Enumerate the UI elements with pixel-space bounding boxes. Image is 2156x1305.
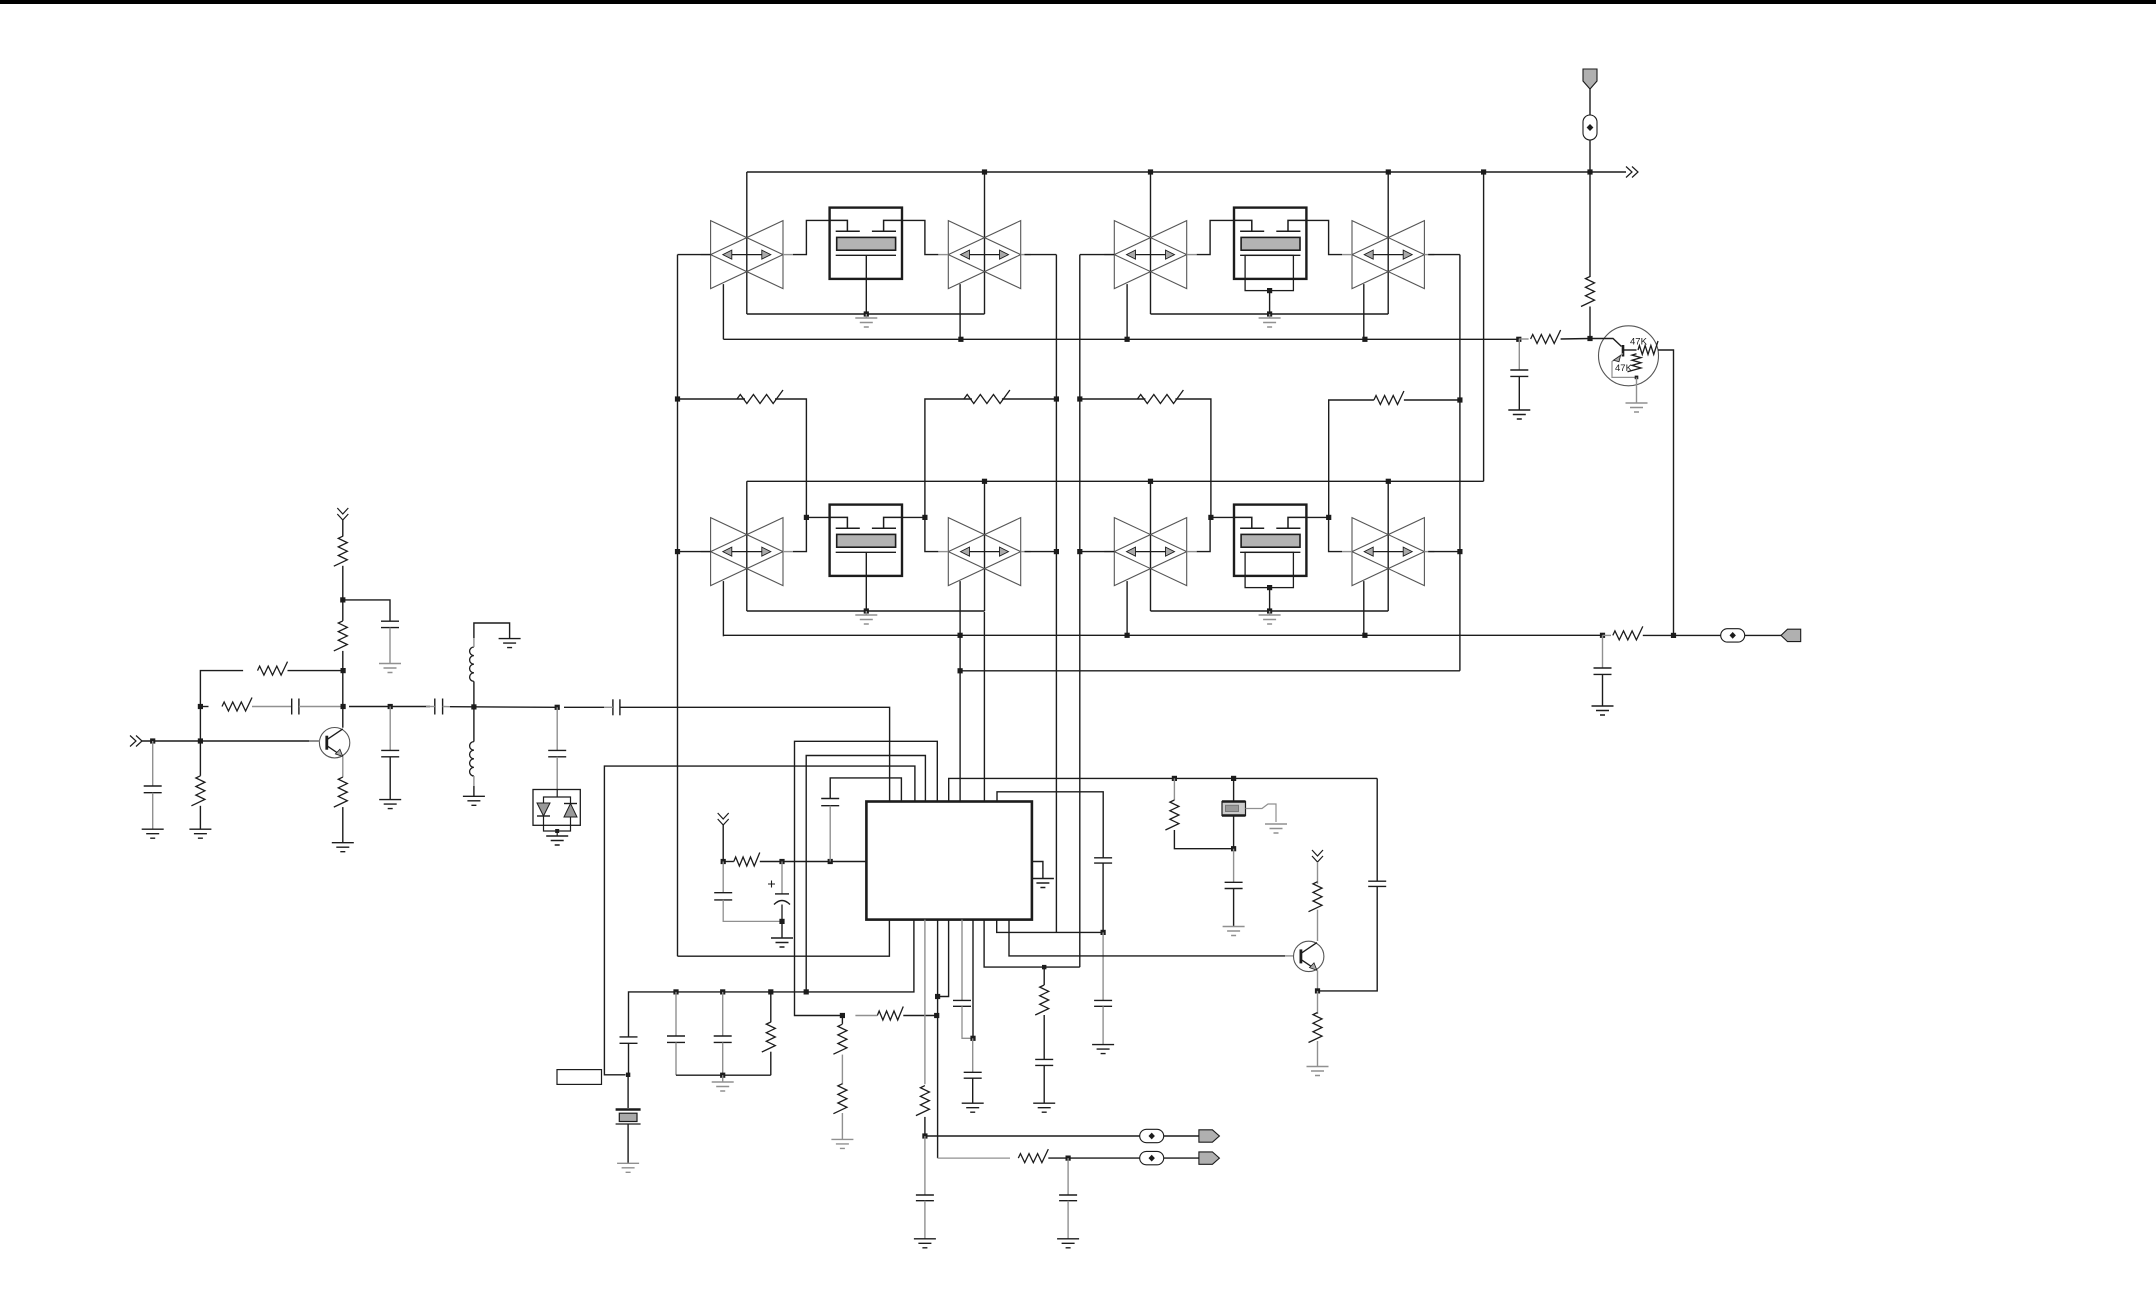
resistor R17 xyxy=(841,1055,843,1085)
border bar top xyxy=(0,0,2156,4)
wire row link vertical xyxy=(1483,172,1485,481)
dual-gate MOSFET cell A1 gate1 electrode xyxy=(830,220,848,231)
wire C22 top xyxy=(1376,778,1378,881)
label box xyxy=(557,1070,602,1085)
wire cell B2 ground loop xyxy=(1151,610,1389,612)
wire pin937 down xyxy=(937,920,939,1159)
junction bus2-B2R xyxy=(1386,479,1391,484)
supply flag V2 xyxy=(337,508,348,520)
capacitor C3 xyxy=(381,620,399,622)
connector flag OUT xyxy=(1781,629,1801,641)
wire R14-node xyxy=(760,861,782,863)
wire cell B2 gate2 link xyxy=(1306,517,1342,551)
diode D1a xyxy=(537,803,550,816)
dual-gate MOSFET cell B1 substrate line xyxy=(1240,254,1300,256)
wire cell A1 left bus vertical xyxy=(746,172,748,314)
wire cell A2 right bus vertical xyxy=(984,481,986,611)
capacitor C4 xyxy=(381,749,399,751)
dual-gate MOSFET cell B2 gate2 electrode xyxy=(1288,517,1306,528)
junction sig-diodes xyxy=(555,705,560,710)
resistor R13 xyxy=(334,777,348,807)
wire maze res chain xyxy=(877,1007,903,1021)
resistor R14 xyxy=(734,853,760,867)
ground cell B1 xyxy=(1269,314,1271,318)
wire cell A1 source tap xyxy=(865,255,867,314)
wire long vertical B-left xyxy=(1079,255,1081,968)
wire Q2 collector out xyxy=(1658,350,1674,635)
ground C21 xyxy=(1223,927,1245,936)
wire R19 bottom xyxy=(1174,830,1233,849)
wire Q3 feedback xyxy=(1318,886,1378,991)
junction B2-left xyxy=(1077,549,1082,554)
wire C18 gnd xyxy=(1043,1065,1045,1103)
ground C18 xyxy=(1033,1103,1055,1112)
junction R1-gate xyxy=(804,515,809,520)
resistor R15 xyxy=(770,992,772,1022)
wire row1 lower loop xyxy=(723,338,1518,340)
junction loop1-end xyxy=(1516,337,1521,342)
varactor pair cell A2 left xyxy=(711,518,783,586)
ground C23 xyxy=(914,1239,936,1248)
wire C19 down xyxy=(1102,863,1104,932)
wire cell A2 gate1 link xyxy=(793,517,830,551)
wire R6 to Q2 base xyxy=(1561,338,1590,341)
wire signal to IC xyxy=(620,707,890,801)
capacitor C24 xyxy=(1059,1194,1077,1196)
wire C1 lead xyxy=(152,741,154,786)
test pad OUT xyxy=(1721,629,1745,642)
wire R23 to out2 xyxy=(1048,1157,1068,1159)
wire C2 right xyxy=(299,706,343,708)
capacitor C8 xyxy=(714,892,732,894)
resistor R8 xyxy=(191,776,205,806)
dual-gate MOSFET cell B2 source box xyxy=(1245,552,1293,587)
wire C24 gnd xyxy=(1067,1201,1069,1239)
wire C15 ground lead xyxy=(1602,674,1604,706)
resistor R10 xyxy=(222,698,252,712)
wire R12 top xyxy=(342,600,344,621)
junction elcap node xyxy=(779,859,784,864)
wire R12 bottom xyxy=(342,651,344,671)
inductor L2 lower xyxy=(470,742,474,776)
wire R2 right xyxy=(1002,398,1057,400)
wire cell A2 gate2 link xyxy=(902,517,938,551)
ground cell B2 xyxy=(1269,611,1271,615)
resistor R22 xyxy=(916,1086,930,1116)
junction loop2-B2b xyxy=(1362,633,1367,638)
ground Q3 xyxy=(1307,1067,1329,1076)
wire L1 top xyxy=(473,638,475,647)
wire cell A2 source tap xyxy=(865,552,867,611)
junction C9 gnd xyxy=(779,919,784,924)
wire C21 link xyxy=(1233,849,1235,883)
wire cell A2 left bus vertical xyxy=(746,481,748,611)
ground X1 xyxy=(617,1163,639,1172)
ground Q2 emitter xyxy=(1626,403,1648,412)
wire R3 left xyxy=(1080,398,1146,400)
wire cell B1 gate2 link xyxy=(1306,220,1342,254)
wire R4 left to gate xyxy=(1329,400,1374,517)
resistor R3 xyxy=(1137,390,1183,404)
dual-gate MOSFET cell A1 channel xyxy=(837,237,896,250)
wire C23 lead xyxy=(924,1136,926,1195)
wire C10 bottom xyxy=(829,806,831,862)
dual-gate MOSFET cell B1 gate2 electrode xyxy=(1288,220,1306,231)
wire cell A1 lower-left vertical xyxy=(722,284,724,339)
wire C6 lead xyxy=(556,707,558,750)
ground cell A2 xyxy=(865,611,867,615)
wire R7 to junction xyxy=(1643,634,1674,636)
junction 1044 xyxy=(1042,965,1046,969)
test pad V1 xyxy=(1583,115,1597,140)
wire out2 to flag xyxy=(1164,1157,1199,1159)
junction A2-left xyxy=(675,549,680,554)
supply flag V3 xyxy=(718,813,729,825)
ground bank xyxy=(722,1075,724,1082)
wire C10 top loop xyxy=(830,778,901,802)
diode D1b xyxy=(564,803,577,805)
capacitor C2 xyxy=(291,699,293,715)
wire R19 branch xyxy=(1173,778,1175,800)
wire cell A1 gate1 link xyxy=(793,220,830,254)
resistor R18 xyxy=(1043,967,1045,985)
wire node to IC left pin xyxy=(782,861,866,863)
wire cell B2 right bus vertical xyxy=(1387,481,1389,611)
wire V1 to pad xyxy=(1589,89,1591,115)
resistor R23 xyxy=(1018,1149,1048,1163)
wire collector link xyxy=(342,671,344,728)
wire pad to bus xyxy=(1589,140,1591,172)
varactor pair cell B1 right xyxy=(1352,221,1424,289)
wire pin962 down xyxy=(961,920,963,1001)
wire row2 lower loop xyxy=(723,634,1602,636)
dual-gate MOSFET cell A1 gate2 electrode xyxy=(884,220,902,231)
junction bus-B1R xyxy=(1386,169,1391,174)
wire C4 lead xyxy=(389,707,391,751)
capacitor C5 coupling xyxy=(434,699,436,715)
resistor Q2 47K horizontal xyxy=(1638,341,1658,355)
wire B2 left lead xyxy=(1080,551,1115,553)
ground D1 xyxy=(546,836,568,845)
junction res-1233 xyxy=(1231,776,1236,781)
wire A2 right lead xyxy=(1025,551,1057,553)
wire R10 row xyxy=(200,706,208,708)
wire R9 right xyxy=(288,670,344,672)
dual-gate MOSFET cell B2 box xyxy=(1234,505,1306,576)
input connector xyxy=(130,736,142,747)
wire to output pad xyxy=(1674,634,1721,636)
transistor Q3 xyxy=(1294,941,1324,971)
wire C16 link xyxy=(962,1006,973,1038)
wire pin913 to cap bank xyxy=(629,920,914,1037)
capacitor C20 xyxy=(1094,999,1112,1001)
ground R8 xyxy=(189,829,211,838)
junction sig-C4 xyxy=(388,704,393,709)
wire C8 bottom xyxy=(723,900,782,922)
wire crystal stub xyxy=(627,1075,629,1108)
wire A2 loop to IC pin xyxy=(983,612,985,802)
wire maze loop741 xyxy=(795,741,938,1015)
electrolytic C9 xyxy=(781,862,783,894)
dual-gate MOSFET cell A2 substrate line xyxy=(836,551,896,553)
junction loop2-A2a xyxy=(958,633,963,638)
wire C14 to ground xyxy=(1518,376,1520,410)
capacitor C18 xyxy=(1035,1058,1053,1060)
ground Y1 xyxy=(1265,824,1287,833)
wire C7 left xyxy=(564,706,604,708)
wire cell A2 ground loop xyxy=(747,610,985,612)
wire pin973 down xyxy=(972,920,974,1039)
junction pin973 xyxy=(970,1036,975,1041)
wire pin948 link xyxy=(938,920,949,997)
varactor pair cell A2 right xyxy=(948,518,1020,586)
resistor R1 xyxy=(737,390,783,404)
wire Q1 emitter down xyxy=(342,757,344,778)
transistor Q2 emitter xyxy=(1612,354,1637,378)
wire cell B1 lower-left vertical xyxy=(1126,284,1128,339)
wire cell B2 gate1 link xyxy=(1197,517,1234,551)
IC U1 xyxy=(866,802,1032,920)
capacitor C13 crystal series xyxy=(620,1036,638,1038)
junction R10-left xyxy=(198,704,203,709)
junction bank1 xyxy=(673,989,678,994)
svg-text:47K: 47K xyxy=(1630,337,1648,348)
ground C14 xyxy=(1508,410,1530,419)
junction cap-830 xyxy=(828,859,833,864)
wire maze right791 xyxy=(997,792,1103,858)
dual-gate MOSFET cell B2 substrate line xyxy=(1240,551,1300,553)
junction R3-left xyxy=(1077,396,1082,401)
wire A1 left lead xyxy=(678,254,711,256)
junction res-1174 xyxy=(1172,776,1177,781)
junction sig-L1 xyxy=(471,704,476,709)
net arrow row1 bus xyxy=(1626,167,1638,178)
wire out2 line xyxy=(1068,1157,1140,1159)
capacitor C19 xyxy=(1094,857,1112,859)
capacitor C17 xyxy=(964,1071,982,1073)
wire R20 to Q3 xyxy=(1317,910,1319,941)
wire C4 gnd xyxy=(389,757,391,800)
resistor R6 xyxy=(1531,330,1561,344)
junction R7-Q2 xyxy=(1671,633,1676,638)
wire maze crystal loop xyxy=(604,766,915,1075)
wire L2 gnd xyxy=(473,776,475,786)
resistor R12 xyxy=(334,621,348,651)
junction D1 gnd xyxy=(555,829,559,833)
wire cell B1 lower-right vertical xyxy=(1363,284,1365,339)
junction V3 node xyxy=(721,859,726,864)
wire maze loop755 xyxy=(806,756,925,992)
varactor pair cell A1 left xyxy=(711,221,783,289)
wire C17 gnd xyxy=(972,1078,974,1103)
wire resonator to node xyxy=(1233,816,1235,849)
junction in-R8 xyxy=(198,738,203,743)
junction R2-right xyxy=(1054,396,1059,401)
junction loop1-A1 xyxy=(958,337,963,342)
ground C20 xyxy=(1092,1045,1114,1054)
wire C14 lead xyxy=(1518,339,1520,370)
wire long vertical A-left xyxy=(677,255,679,957)
junction crystal node xyxy=(626,1073,630,1077)
resistor Q2 47K vertical xyxy=(1628,354,1642,372)
wire bank tie xyxy=(676,1074,771,1076)
varactor pair cell A1 right xyxy=(948,221,1020,289)
varactor pair cell B2 right xyxy=(1352,518,1424,586)
dual-gate MOSFET cell B1 gate1 electrode xyxy=(1234,220,1252,231)
wire Q3 emitter xyxy=(1317,971,1319,991)
junction bus-supply xyxy=(1587,169,1592,174)
wire A2 left lead xyxy=(678,551,711,553)
wire Q2 base jog xyxy=(1590,339,1622,347)
resistor R19 xyxy=(1165,800,1179,830)
junction loop2-out xyxy=(1600,633,1605,638)
junction loop2-B2a xyxy=(1125,633,1130,638)
ground R17 xyxy=(831,1139,853,1148)
junction out2 xyxy=(1066,1156,1071,1161)
junction R1-left xyxy=(675,396,680,401)
wire C21 gnd xyxy=(1233,889,1235,927)
junction bus-rowlink xyxy=(1481,169,1486,174)
junction cell A1 source-loop xyxy=(864,311,869,316)
junction A2-right xyxy=(1054,549,1059,554)
ground C1 xyxy=(142,829,164,838)
junction cell B1 source-loop xyxy=(1267,311,1272,316)
wire B2 right lead xyxy=(1428,551,1460,553)
junction R3-gate xyxy=(1208,515,1213,520)
wire R10-C2 xyxy=(252,706,292,708)
ground cell A1 xyxy=(865,314,867,318)
ground C9 xyxy=(771,938,793,947)
connector flag OUT2 xyxy=(1199,1152,1220,1164)
wire Q3 base lead xyxy=(1285,955,1293,957)
junction resonator bottom xyxy=(1231,846,1236,851)
dual-gate MOSFET cell A2 channel xyxy=(837,534,896,547)
wire pin889 to left vertical xyxy=(678,920,890,957)
capacitor C16 xyxy=(953,999,971,1001)
capacitor C15 xyxy=(1594,667,1612,669)
varactor pair cell B1 left xyxy=(1114,221,1186,289)
junction R2-gate xyxy=(922,515,927,520)
wire cell B2 left bus vertical xyxy=(1150,481,1152,611)
junction R4-right xyxy=(1457,397,1462,402)
wire C24 lead xyxy=(1067,1158,1069,1195)
wire R13 gnd xyxy=(342,807,344,843)
junction Q2 emitter-res xyxy=(1635,376,1639,380)
wire C5 left xyxy=(426,706,435,708)
capacitor C11 xyxy=(675,992,677,1036)
ground L1 xyxy=(499,639,521,648)
wire cell A1 right bus vertical xyxy=(984,172,986,314)
resistor R20 xyxy=(1309,882,1323,912)
test pad OUT1 xyxy=(1140,1129,1164,1142)
wire D1 bottoms xyxy=(544,816,571,831)
wire C1 gnd xyxy=(152,793,154,830)
junction cell B2 source-loop xyxy=(1267,608,1272,613)
supply flag V4 xyxy=(1312,850,1323,862)
wire R1 left xyxy=(678,398,746,400)
capacitor C10 bypass xyxy=(821,798,839,800)
capacitor C6 xyxy=(548,749,566,751)
wire cell B2 source tap xyxy=(1269,588,1271,611)
junction R4-gate xyxy=(1326,515,1331,520)
wire cell A1 ground loop xyxy=(747,313,985,315)
junction chain-left xyxy=(840,1013,845,1018)
svg-text:47K: 47K xyxy=(1615,363,1633,374)
wire out1 to flag xyxy=(1164,1135,1199,1137)
wire signal node1 xyxy=(349,706,430,708)
wire pin924 down xyxy=(924,920,926,1085)
wire resonator top xyxy=(1233,778,1235,801)
resistor R9 xyxy=(258,662,288,676)
capacitor C1 xyxy=(144,785,162,787)
diode pair D1 box xyxy=(533,790,580,826)
transistor Q2 envelope xyxy=(1599,326,1659,386)
varactor pair cell B2 left xyxy=(1114,518,1186,586)
junction bank2 xyxy=(720,989,725,994)
junction R9-col xyxy=(341,668,346,673)
wire C23 gnd xyxy=(924,1201,926,1239)
dual-gate MOSFET cell B2 channel xyxy=(1241,534,1300,547)
capacitor C12 xyxy=(722,992,724,1036)
crystal X1 xyxy=(616,1108,641,1111)
dual-gate MOSFET cell A2 box xyxy=(830,505,902,576)
wire R1 right to gate xyxy=(775,399,806,517)
wire resonator gnd lead xyxy=(1246,804,1277,822)
wire C3 gnd xyxy=(389,628,391,664)
junction feedback tap xyxy=(958,668,963,673)
junction bus-A1R xyxy=(982,169,987,174)
wire R22 to out1 xyxy=(924,1117,926,1136)
connector flag OUT1 xyxy=(1199,1130,1220,1142)
wire maze right778 xyxy=(949,778,1377,801)
ground C15 xyxy=(1592,706,1614,715)
wire cell B1 ground loop xyxy=(1151,313,1389,315)
wire R11 to node xyxy=(342,566,344,600)
supply flag V1 xyxy=(1583,69,1597,89)
wire cell B1 source tap xyxy=(1269,291,1271,314)
wire R9 feedback top xyxy=(200,671,243,741)
junction bus-B1L xyxy=(1148,169,1153,174)
junction bus2-B2L xyxy=(1148,479,1153,484)
wire L1 lead xyxy=(473,681,475,707)
dual-gate MOSFET cell A2 gate2 electrode xyxy=(884,517,902,528)
junction bank-806 xyxy=(804,989,809,994)
junction cell A2 source-loop xyxy=(864,608,869,613)
wire to C17 xyxy=(972,1038,974,1072)
wire V2 down xyxy=(342,520,344,537)
resonator Y1 xyxy=(1222,802,1246,816)
wire pin1009 Q3 base xyxy=(1009,920,1285,956)
wire Q3 emitter res xyxy=(1317,991,1319,1014)
capacitor C21 xyxy=(1225,881,1243,883)
junction in-C1 xyxy=(150,738,155,743)
junction pin948-937 xyxy=(935,994,940,999)
junction loop1-B1b xyxy=(1362,337,1367,342)
wire out to R7 xyxy=(1603,634,1612,636)
wire R21 gnd xyxy=(1317,1041,1319,1067)
ground C4 xyxy=(379,800,401,809)
resistor R2 xyxy=(964,390,1010,404)
junction bus2-A2R xyxy=(982,479,987,484)
wire 1103 down xyxy=(1102,932,1104,1000)
ground C3 xyxy=(379,664,401,673)
dual-gate MOSFET cell A2 gate1 electrode xyxy=(830,517,848,528)
capacitor C15 lead xyxy=(1602,635,1604,668)
wire IC right pin gnd xyxy=(1032,862,1043,879)
wire A2 bowtie to IC pin xyxy=(959,636,961,801)
wire long vertical B-right xyxy=(1459,255,1461,671)
wire cell A1 lower-right vertical xyxy=(959,284,961,339)
